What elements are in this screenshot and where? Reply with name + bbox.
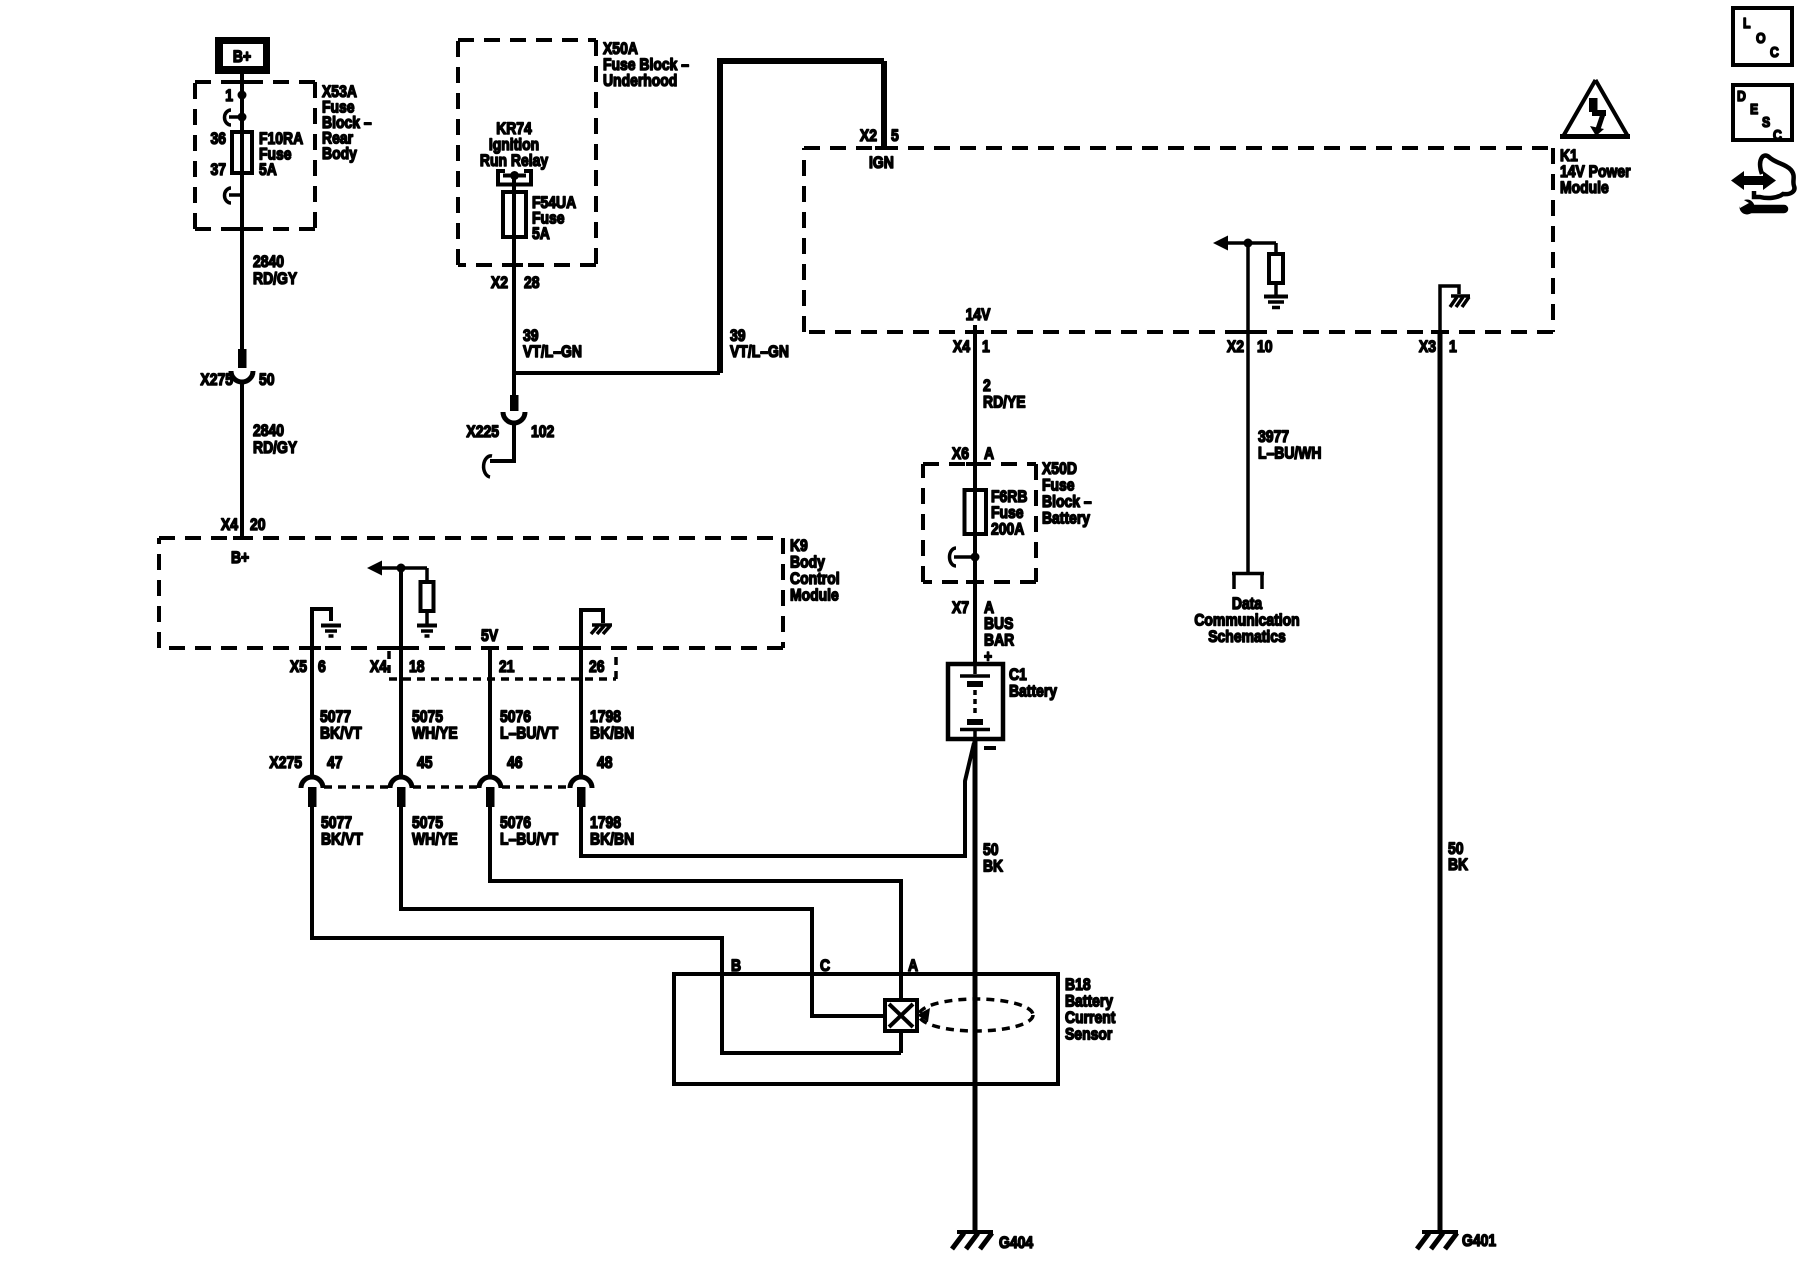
- label C1 Battery: [1009, 665, 1057, 701]
- svg-text:B+: B+: [233, 47, 251, 66]
- svg-text:X5: X5: [290, 657, 307, 676]
- sensor B18 box: [674, 974, 1058, 1084]
- tick X50A bottom edge: [505, 263, 523, 267]
- svg-text:36: 36: [211, 129, 227, 148]
- svg-text:Battery: Battery: [1042, 509, 1090, 528]
- svg-text:5A: 5A: [259, 160, 277, 179]
- svg-text:X2: X2: [1227, 337, 1244, 356]
- svg-text:BK/BN: BK/BN: [590, 724, 634, 743]
- svg-text:Body: Body: [322, 144, 357, 163]
- module K9 Body Control Module dashed box: [159, 538, 783, 648]
- svg-text:X225: X225: [466, 422, 499, 441]
- svg-text:L: L: [1743, 15, 1751, 32]
- wire 2840 RD/GY lower: [240, 382, 244, 538]
- svg-text:5: 5: [891, 126, 899, 145]
- connector X275 terminal 48: [570, 777, 592, 807]
- wire 2840 RD/GY upper: [240, 173, 244, 349]
- ground symbol K9 resistor: [417, 626, 437, 637]
- label X53A Fuse Block - Rear Body: [322, 82, 372, 163]
- battery C1 plates: [960, 664, 990, 739]
- label X50D Fuse Block - Battery: [1042, 459, 1092, 528]
- svg-text:102: 102: [531, 422, 554, 441]
- label 5077 BK/VT upper: [320, 707, 362, 743]
- wire 39 VT/L-GN trunk: [717, 61, 884, 373]
- svg-text:Run Relay: Run Relay: [480, 151, 549, 170]
- tick X53A top edge: [233, 80, 251, 84]
- svg-text:BK: BK: [1448, 855, 1469, 874]
- svg-text:Module: Module: [1560, 178, 1609, 197]
- label 5075 WH/YE upper: [412, 707, 458, 743]
- wire 5077 BK/VT upper: [310, 648, 314, 777]
- label 1798 BK/BN upper: [590, 707, 634, 743]
- svg-text:X2: X2: [860, 126, 877, 145]
- tick K1 bottom X3-1: [1431, 330, 1449, 334]
- svg-text:X7: X7: [952, 598, 969, 617]
- node pin 1 junction dot: [238, 91, 247, 100]
- wire fuse output down: [512, 237, 516, 373]
- K9 internal arrow: [367, 561, 427, 576]
- DESC reference box: [1733, 85, 1792, 144]
- label 5077 BK/VT lower: [321, 813, 363, 849]
- label F54UA Fuse 5A: [532, 193, 576, 243]
- terminal hook upper: [225, 110, 247, 125]
- terminal hook X50D: [950, 548, 980, 566]
- svg-text:B: B: [731, 956, 741, 975]
- pigtail curl: [484, 456, 492, 477]
- ground symbol inside K1: [1264, 297, 1288, 308]
- sensor clamp ellipse: [917, 999, 1033, 1031]
- svg-text:1: 1: [225, 86, 233, 105]
- label X50A Fuse Block - Underhood: [603, 39, 689, 90]
- K9 connector sub-box dotted: [389, 651, 616, 679]
- connector X275 terminal 46: [479, 777, 501, 807]
- svg-text:RD/GY: RD/GY: [253, 438, 298, 457]
- LOC reference box: [1733, 8, 1792, 65]
- K1 internal arrow branch: [1213, 236, 1276, 251]
- svg-text:X275: X275: [200, 370, 233, 389]
- relay KR74 contact symbol: [496, 169, 533, 192]
- label 50 BK right: [1448, 839, 1469, 874]
- label F6RB Fuse 200A: [991, 487, 1027, 539]
- svg-text:200A: 200A: [991, 520, 1024, 539]
- svg-text:BK/BN: BK/BN: [590, 830, 634, 849]
- label 2 RD/YE: [983, 376, 1026, 412]
- svg-text:1: 1: [982, 337, 990, 356]
- K9 internal resistor: [421, 568, 434, 625]
- label 39 VT/L-GN left: [523, 326, 582, 361]
- svg-text:5A: 5A: [532, 224, 550, 243]
- svg-text:D: D: [1737, 88, 1746, 105]
- tick K9 bottom 26: [572, 646, 590, 650]
- svg-text:26: 26: [589, 657, 605, 676]
- svg-text:28: 28: [524, 273, 540, 292]
- svg-text:X6: X6: [952, 444, 969, 463]
- svg-text:18: 18: [409, 657, 425, 676]
- label K1 14V Power Module: [1560, 146, 1631, 197]
- wire battery main cable to G404: [973, 739, 978, 1232]
- svg-text:A: A: [908, 956, 918, 975]
- svg-text:RD/YE: RD/YE: [983, 393, 1026, 412]
- svg-text:G404: G404: [999, 1233, 1034, 1252]
- label 5076 L-BU/VT upper: [500, 707, 559, 743]
- svg-text:E: E: [1750, 101, 1758, 118]
- svg-text:5V: 5V: [481, 626, 499, 645]
- battery minus sign: [984, 746, 996, 750]
- fuse block X50A dashed box: [458, 40, 596, 265]
- label B18 Battery Current Sensor: [1065, 975, 1116, 1044]
- svg-text:X275: X275: [269, 753, 302, 772]
- wire 5076 L-BU/VT upper: [488, 648, 492, 777]
- wire 3977 L-BU/WH label: [1258, 427, 1322, 463]
- label 50 BK battery: [983, 840, 1004, 876]
- svg-text:X4: X4: [370, 657, 388, 676]
- connector X275 terminal 47: [301, 777, 323, 807]
- wire 5075 WH/YE upper: [399, 648, 403, 777]
- svg-text:X4: X4: [953, 337, 971, 356]
- X275 dashed link line: [324, 785, 569, 789]
- svg-text:L–BU/VT: L–BU/VT: [500, 724, 559, 743]
- svg-text:C: C: [1770, 44, 1779, 61]
- label 5076 L-BU/VT lower: [500, 813, 559, 849]
- wire K1 X2-10 output: [1246, 243, 1250, 573]
- svg-text:BK: BK: [983, 857, 1004, 876]
- label 2840 RD/GY lower: [253, 421, 298, 457]
- wire 50 BK right to G401: [1438, 332, 1443, 1232]
- svg-text:IGN: IGN: [869, 153, 894, 172]
- svg-text:C: C: [820, 956, 830, 975]
- label 39 VT/L-GN right: [730, 326, 789, 361]
- wire 5075 to sensor pin C: [401, 807, 885, 1016]
- tick K1 bottom X4-1: [966, 330, 984, 334]
- tick K9 bottom X4-18: [392, 646, 410, 650]
- harness repair icon: [1731, 156, 1794, 215]
- svg-text:6: 6: [318, 657, 326, 676]
- svg-text:50: 50: [259, 370, 275, 389]
- K9 pin6 internal ground wire: [312, 609, 331, 648]
- tick K1 top edge X2-5: [875, 146, 893, 150]
- svg-text:WH/YE: WH/YE: [412, 830, 458, 849]
- svg-text:21: 21: [499, 657, 515, 676]
- sensor element X-box: [885, 1000, 917, 1053]
- wire fuse to battery: [973, 533, 977, 664]
- ground G404: [952, 1232, 993, 1249]
- wire 2 RD/YE: [973, 325, 977, 492]
- terminal hook lower: [225, 188, 242, 203]
- svg-text:O: O: [1756, 30, 1766, 47]
- wire jumper to trunk: [514, 371, 720, 375]
- svg-text:A: A: [984, 444, 994, 463]
- svg-text:46: 46: [507, 753, 523, 772]
- wire stub to X225: [512, 373, 516, 395]
- svg-text:37: 37: [211, 160, 227, 179]
- tick X53A bottom edge: [233, 227, 251, 231]
- connector X225 terminal 102: [503, 395, 525, 423]
- svg-text:Sensor: Sensor: [1065, 1025, 1113, 1044]
- svg-text:Underhood: Underhood: [603, 71, 677, 90]
- svg-text:BK/VT: BK/VT: [320, 724, 362, 743]
- node BUS BAR +: [984, 614, 1014, 666]
- svg-text:X3: X3: [1419, 337, 1436, 356]
- wire 5077 to sensor pin B: [312, 807, 901, 1053]
- svg-text:10: 10: [1257, 337, 1273, 356]
- label F10RA Fuse 5A: [259, 129, 303, 179]
- svg-text:X4: X4: [221, 515, 239, 534]
- wire 1798 to battery negative: [581, 743, 974, 856]
- svg-text:S: S: [1762, 114, 1770, 131]
- wire 5076 to sensor pin A: [490, 807, 901, 1000]
- svg-text:48: 48: [597, 753, 613, 772]
- svg-text:1: 1: [1449, 337, 1457, 356]
- svg-text:BK/VT: BK/VT: [321, 830, 363, 849]
- svg-text:45: 45: [417, 753, 433, 772]
- off-page connector symbol: [1232, 574, 1264, 590]
- svg-text:Module: Module: [790, 586, 839, 605]
- svg-text:Battery: Battery: [1009, 682, 1057, 701]
- ground symbol K9 pin6: [321, 626, 341, 637]
- fuse block X50D dashed box: [923, 464, 1036, 582]
- tick K9 bottom 21: [481, 646, 499, 650]
- label 1798 BK/BN lower: [590, 813, 634, 849]
- K9 pin26 internal chassis ground: [581, 610, 612, 648]
- fuse F10RA: [232, 132, 252, 173]
- fuse block X53A dashed box: [195, 82, 315, 229]
- label K9 Body Control Module: [790, 536, 840, 605]
- svg-text:G401: G401: [1462, 1231, 1496, 1250]
- svg-text:RD/GY: RD/GY: [253, 269, 298, 288]
- svg-text:WH/YE: WH/YE: [412, 724, 458, 743]
- label 5075 WH/YE lower: [412, 813, 458, 849]
- tick K9 top edge X4-20: [233, 536, 251, 540]
- ground G401: [1417, 1232, 1458, 1249]
- connector X275 terminal 50: [231, 349, 253, 382]
- K1 internal resistor: [1269, 243, 1283, 295]
- svg-text:VT/L–GN: VT/L–GN: [730, 342, 789, 361]
- svg-text:B+: B+: [231, 548, 249, 567]
- fuse F6RB: [965, 490, 987, 534]
- fuse F54UA: [503, 192, 526, 237]
- tick K9 bottom X5-6: [303, 646, 321, 650]
- svg-text:14V: 14V: [966, 305, 991, 324]
- svg-text:VT/L–GN: VT/L–GN: [523, 342, 582, 361]
- wire B+ into fuse block: [240, 74, 244, 132]
- wire 1798 BK/BN upper: [579, 648, 583, 777]
- svg-text:C: C: [1773, 127, 1782, 144]
- B+ power feed box: [215, 37, 270, 74]
- K1 X3 internal chassis ground hook: [1440, 286, 1470, 332]
- svg-text:20: 20: [250, 515, 266, 534]
- label Data Communication Schematics: [1194, 594, 1299, 646]
- svg-text:X2: X2: [491, 273, 508, 292]
- svg-text:L–BU/VT: L–BU/VT: [500, 830, 559, 849]
- module K1 14V Power Module dashed box: [804, 148, 1553, 332]
- tick K1 bottom X2-10: [1239, 330, 1257, 334]
- tick X50D top edge: [966, 462, 984, 466]
- svg-text:47: 47: [327, 753, 343, 772]
- label KR74 Ignition Run Relay: [480, 119, 549, 170]
- svg-text:Schematics: Schematics: [1208, 627, 1286, 646]
- label 2840 RD/GY upper: [253, 252, 298, 288]
- warning triangle icon: [1560, 80, 1630, 137]
- K9 pin18 internal wire: [399, 568, 403, 648]
- svg-text:L–BU/WH: L–BU/WH: [1258, 444, 1322, 463]
- battery C1 box: [948, 664, 1003, 739]
- connector X275 terminal 45: [390, 777, 412, 807]
- tick X50D bottom edge: [966, 580, 984, 584]
- wire pigtail below X225: [490, 422, 514, 461]
